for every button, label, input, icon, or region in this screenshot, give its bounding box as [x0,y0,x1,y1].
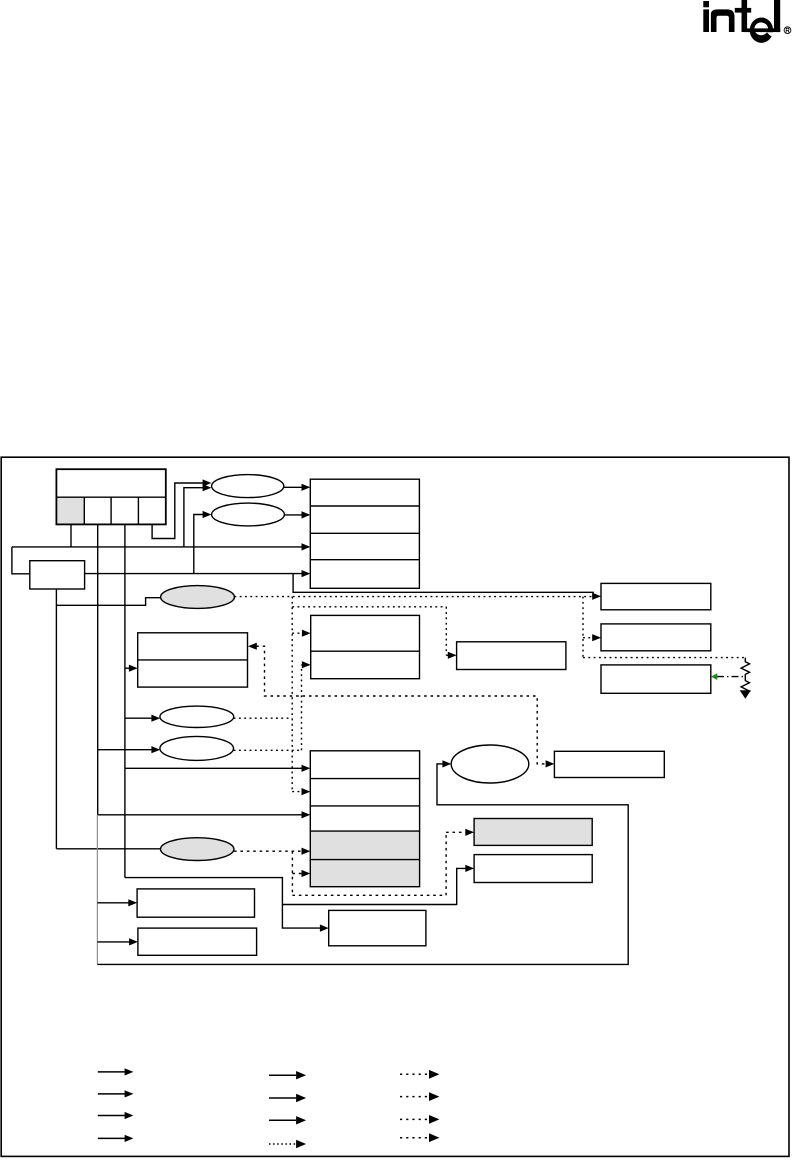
tall box right [310,479,419,588]
wire ellipse2 to tall row2 [284,514,301,516]
wire cell1 down [70,524,72,547]
intel logo [703,0,791,43]
dashed arrow big row5 [292,873,302,875]
box R1 [601,583,711,609]
arrowhead big box row4 [302,848,311,855]
gray feedback vertical [96,815,98,965]
arrow ellipse2 [203,511,212,518]
box top register [56,469,165,524]
wire to big box row3 [98,814,302,816]
box P1 [474,819,592,846]
wire row4 branch to box R1 [293,574,594,597]
dashed to box P1 [292,832,466,895]
gray cell fill [56,497,84,524]
legend col3 dashed arrows [400,1074,429,1137]
box L2 [138,928,257,955]
dotted branch y607 to box G [292,607,449,656]
wire branch up to ellipse1 lower [184,488,203,547]
arrow tall row3 [302,543,311,550]
arrowhead box F row1 [302,630,311,637]
wire to gray ellipse2 [56,848,160,850]
wire to box L2 [97,941,129,943]
diagram border [1,457,789,1156]
wire small box down [55,589,57,849]
gray ellipse1 [161,586,235,609]
arrow ellipse5 [442,760,451,767]
big box [310,751,419,887]
dotted branch x583 [582,597,584,658]
arrow box L2 [129,938,138,945]
wire ellipse1 to tall row1 [284,486,302,488]
arrow big row3 [302,811,311,818]
arrow ellipse1 a [203,479,212,486]
big box dividers [310,779,419,860]
wire cell2 down [97,524,99,814]
box L1 [137,889,254,917]
ellipse3 [160,706,234,727]
ellipse4 [160,736,234,760]
dotted ellipse3 join [234,717,293,719]
arrowhead box P1 [465,829,474,836]
big box gray rows [310,831,419,887]
gray ellipse2 [161,838,234,861]
arrow ellipse4 [151,746,160,753]
box R2 [601,624,711,651]
wire branch up to ellipse2 [194,515,203,574]
dotted trunk down from y597 [291,597,293,792]
arrow box L1 [128,899,137,906]
dotted arrow into box R2 [583,637,593,639]
resistor [741,658,749,694]
arrowhead into box E right [248,643,257,650]
arrow big row1 [302,765,311,772]
dotted line to resistor [583,657,745,659]
wire cell3 down [124,524,126,877]
legend col2 solid arrows [269,1075,296,1120]
wire branch to box P2 [282,868,466,904]
arrow ellipse3 [151,715,160,722]
arrow tall row4 [302,570,311,577]
dash-dot line to box R3 [717,676,745,678]
green arrow into box R3 [711,673,717,680]
wire to box E [125,667,130,669]
box F [311,615,420,678]
wire to ellipse3 [125,717,152,719]
dashed gray ellipse2 out [234,850,302,852]
box P2 [474,855,592,883]
box R3 [601,665,711,693]
arrow ellipse1 b [203,484,212,491]
box F divider [311,650,420,652]
arrowhead box F row2 [302,661,311,668]
dotted arrow big box row2 [292,791,302,793]
cell dividers [84,497,138,524]
arrow tall row1 [302,484,311,491]
arrowhead box N [546,760,555,767]
wire to box L1 [97,902,128,904]
dashed from box E to box N [256,646,546,764]
wire small box out y573 to tall box row4 [85,573,302,575]
wire to big box row1 [125,767,302,769]
legend col2 dotted arrow [269,1143,296,1145]
box E divider [138,659,248,661]
arrow box P2 [465,865,474,872]
arrowhead box G [448,652,457,659]
arrow box M [320,925,329,932]
arrowhead big box row5 [302,870,311,877]
arrowhead box R2 [592,634,601,641]
small box left [30,561,85,589]
wire cell4 to ellipse1 upper [152,483,203,539]
wire bus y547 to tall box row3 [12,546,302,548]
ellipse1 [212,475,284,498]
dashed trunk down x292 [291,851,293,895]
dotted gray ellipse1 to box R1 [234,596,592,598]
arrow box R1 [592,593,601,600]
tall box dividers [310,506,419,560]
legend col1 solid arrows [98,1072,125,1139]
dotted arrow into box F row1 [292,632,302,634]
arrow box E [129,665,138,672]
arrow tall row2 [302,511,311,518]
register divider [56,496,165,498]
wire to gray ellipse1 [56,598,160,606]
wire left loop to small box [12,547,30,574]
dotted ellipse4 out [234,665,303,751]
box M [329,910,426,945]
ellipse5 [451,745,529,783]
box G [457,642,566,670]
resistor ground arrow [740,690,751,699]
arrowhead big box row2 [302,788,311,795]
wire cell3 to box M [125,878,321,929]
wire to ellipse4 [98,749,153,751]
wire feedback loop [97,764,628,965]
box E [138,633,248,687]
box N [554,751,664,777]
ellipse2 [212,503,285,526]
